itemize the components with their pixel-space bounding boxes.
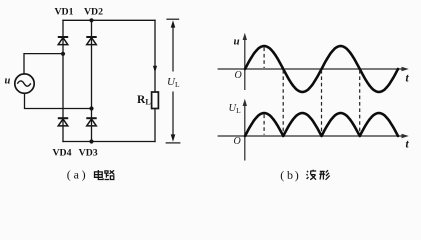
- UL-plot v-axis arrowhead: [243, 99, 247, 106]
- svg-text:VD3: VD3: [79, 147, 98, 158]
- diode VD2: [86, 37, 96, 45]
- svg-text:b: b: [287, 168, 293, 182]
- wire: left bridge rail: [62, 20, 64, 141]
- UL-plot horizontal axis: [218, 135, 406, 137]
- caption glyph: xing: [319, 170, 329, 180]
- diode VD1: [58, 37, 68, 45]
- wire: top bus from left rail to RL branch: [63, 19, 155, 21]
- junction node: right rail / source bottom: [89, 106, 93, 110]
- svg-text:O: O: [235, 70, 242, 81]
- UL-plot vertical axis: [244, 102, 246, 161]
- dashed: first peak of u: [263, 48, 265, 69]
- axes of UL(t) plot: [218, 102, 406, 161]
- svg-text:O: O: [234, 136, 241, 147]
- diode VD4: [58, 118, 68, 126]
- current arrow on RL branch: [153, 66, 157, 73]
- svg-text:): ): [82, 168, 86, 182]
- svg-text:VD1: VD1: [54, 6, 73, 17]
- dashed: zero crossing 3: [359, 70, 361, 135]
- rectified curve UL: [245, 113, 398, 136]
- AC source u: [15, 74, 34, 93]
- axes of u(t) plot: [218, 36, 406, 91]
- sine curve u: [245, 46, 398, 92]
- svg-text:a: a: [74, 168, 80, 182]
- u-plot vertical axis: [244, 36, 246, 91]
- caption glyph: dian: [95, 170, 104, 180]
- svg-text:u: u: [5, 76, 11, 87]
- dashed: first peak of UL: [263, 115, 265, 135]
- wire: RL branch lower segment: [154, 109, 156, 142]
- UL-plot t-axis arrowhead: [402, 134, 409, 138]
- svg-text:): ): [295, 168, 299, 182]
- resistor RL: [152, 92, 159, 109]
- u-plot t-axis arrowhead: [402, 67, 409, 71]
- junction node: left rail / source top: [61, 52, 65, 56]
- caption glyph: bo: [307, 170, 317, 180]
- diode VD3: [86, 118, 96, 126]
- u-plot u-axis arrowhead: [243, 33, 247, 40]
- svg-text:VD2: VD2: [84, 6, 103, 17]
- junction node: bottom bus / right rail: [89, 139, 93, 143]
- svg-text:(: (: [280, 168, 284, 182]
- svg-text:(: (: [67, 168, 71, 182]
- u-plot horizontal axis: [218, 68, 406, 70]
- UL dimension arrow: [166, 19, 181, 143]
- junction node: top bus / right rail: [89, 18, 93, 22]
- dashed: zero crossing 2: [321, 70, 323, 135]
- svg-text:VD4: VD4: [52, 147, 71, 158]
- svg-text:u: u: [234, 36, 240, 48]
- dashed: zero crossing 1: [282, 70, 284, 135]
- wire: right bridge rail: [91, 20, 93, 141]
- wire: RL branch upper segment: [154, 20, 156, 92]
- wire: bottom bus: [63, 141, 155, 143]
- caption glyph: lu: [105, 170, 115, 179]
- wire: source bottom lead to right rail midpoint: [25, 93, 92, 108]
- wire: source top lead to left rail midpoint: [24, 54, 63, 74]
